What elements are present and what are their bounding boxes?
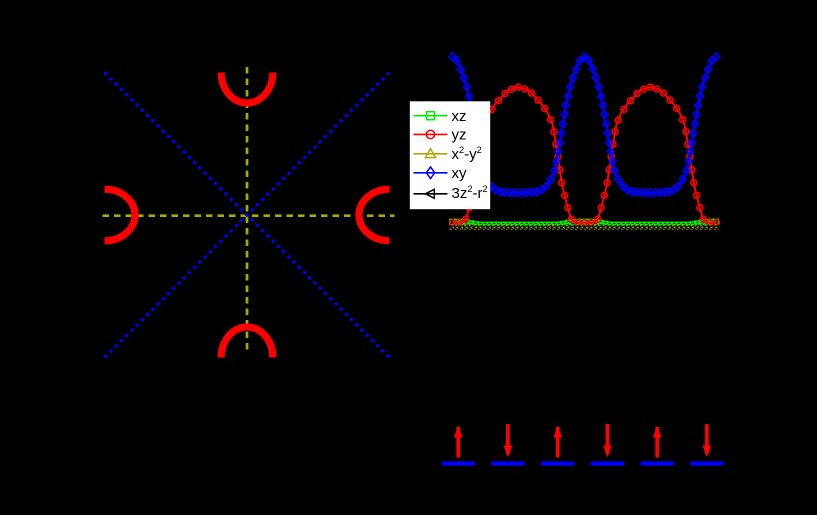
svg-text:xy: xy: [452, 165, 468, 182]
svg-text:xz: xz: [452, 108, 467, 125]
svg-text:yz: yz: [452, 127, 467, 144]
